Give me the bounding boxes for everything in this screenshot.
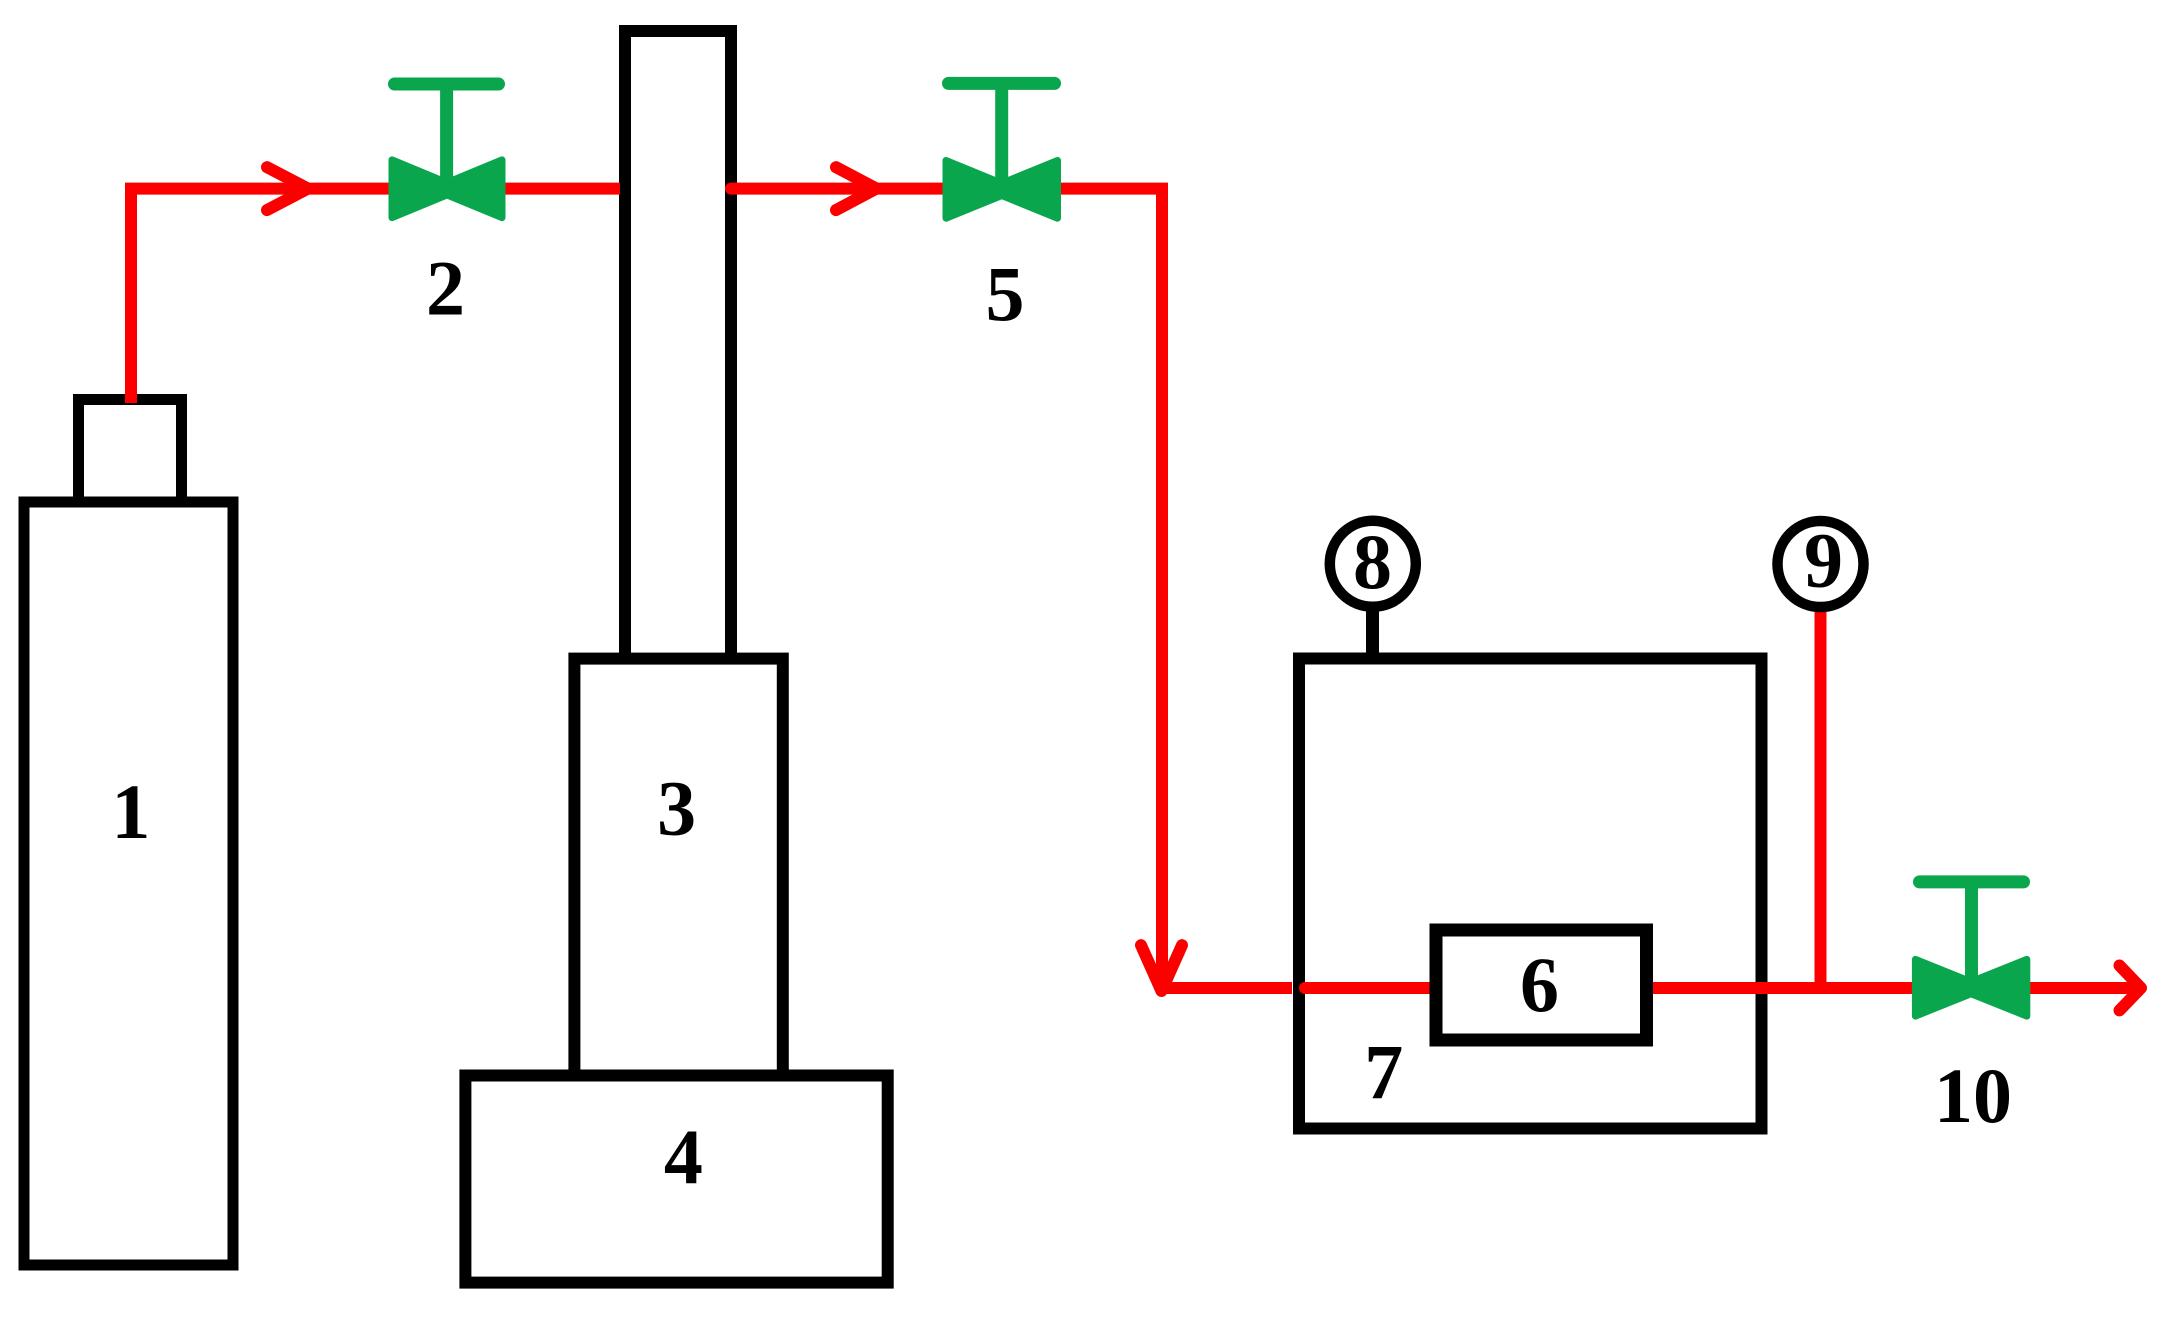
vessel 3: [574, 659, 782, 1076]
svg-text:6: 6: [1520, 941, 1559, 1028]
svg-text:2: 2: [426, 244, 465, 331]
svg-text:1: 1: [111, 768, 150, 855]
flow arrow 3 (down): [1141, 945, 1182, 991]
svg-text:3: 3: [657, 764, 696, 851]
svg-text:4: 4: [664, 1113, 703, 1200]
gauge 8 stem: [1366, 604, 1379, 660]
wire: red stem of gauge 9: [1815, 609, 1827, 986]
reactor box 6: [1436, 930, 1647, 1040]
gauge 8: [1330, 521, 1416, 607]
flow arrow 4 (outlet): [2120, 966, 2142, 1011]
flow arrow 2: [836, 167, 877, 210]
svg-text:8: 8: [1353, 518, 1392, 605]
svg-text:9: 9: [1804, 517, 1843, 604]
wire: red pipe from cylinder 1 to valve 2 to column 3: [131, 189, 620, 403]
svg-text:7: 7: [1364, 1029, 1403, 1116]
column 3 upper tube: [625, 31, 731, 691]
wire: red pipe through reactor 6 and valve 10 to outlet: [1305, 982, 2140, 994]
flow arrow 1: [267, 167, 308, 210]
gas cylinder 1 neck: [79, 400, 182, 503]
oven box 7: [1299, 659, 1762, 1129]
wire: red pipe from column 3 through valve 5, down to oven 7: [725, 183, 737, 195]
gauge 9: [1778, 521, 1864, 607]
gas cylinder 1 body: [24, 502, 233, 1265]
svg-text:10: 10: [1934, 1052, 2012, 1139]
valve 10: [1915, 882, 2026, 1016]
base 4: [465, 1076, 887, 1283]
valve 5: [946, 83, 1058, 218]
svg-text:5: 5: [986, 250, 1025, 337]
valve 2: [392, 84, 502, 218]
